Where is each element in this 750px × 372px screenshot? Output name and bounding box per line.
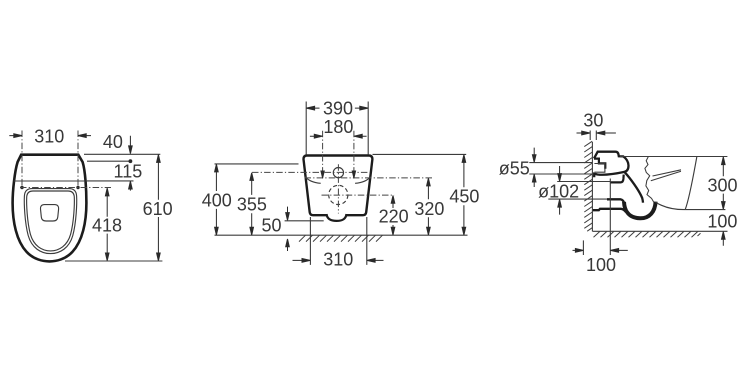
seat back line [14, 180, 86, 182]
dim 355 line with arrows [250, 173, 254, 235]
ground line [215, 234, 468, 236]
profile: outlet pipe top [607, 199, 624, 203]
bowl outlet funnel wall [625, 172, 643, 202]
dim 320 line with arrows [427, 178, 431, 235]
bowl top line / 300 extension [620, 156, 727, 158]
svg-text:418: 418 [92, 216, 122, 236]
ground hatching middle [299, 235, 382, 241]
svg-text:355: 355 [237, 195, 267, 215]
dim 220 line with arrows [391, 196, 395, 236]
extension line top right (450) [373, 153, 467, 155]
dim 310 bottom arrows [293, 259, 311, 263]
svg-text:30: 30 [583, 111, 603, 131]
dim 450 line with arrows [462, 155, 466, 235]
floor hatching [594, 231, 701, 237]
flush outlet shape (rounded square) [40, 205, 58, 221]
dim 310 left arrow [9, 134, 22, 138]
left fixing hole centerline with down arrow [322, 131, 324, 172]
left fixing recess arc [305, 177, 321, 184]
dim 40 down arrow [129, 136, 133, 154]
outlet level centerline 220 [322, 194, 395, 196]
extension line 50 level [285, 220, 324, 222]
svg-text:220: 220 [379, 207, 409, 227]
svg-text:450: 450 [449, 187, 479, 207]
rim water lines [651, 170, 681, 181]
svg-text:400: 400 [202, 191, 232, 211]
right fixing hole centerline with down arrow [353, 131, 355, 172]
svg-text:40: 40 [103, 132, 123, 152]
bowl front edge [685, 157, 697, 210]
water inlet circle (top) [333, 168, 343, 178]
svg-text:100: 100 [586, 255, 616, 275]
dim 390 arrows [306, 106, 319, 110]
svg-text:ø102: ø102 [538, 182, 579, 202]
svg-text:180: 180 [323, 117, 353, 137]
dim ø55 arrows [532, 148, 536, 163]
vertical centerline dash-dot [337, 164, 339, 213]
svg-text:ø55: ø55 [499, 159, 530, 179]
dim 50 arrows [286, 207, 290, 221]
dim ø102 extension lines [548, 182, 610, 200]
dim ø102 arrows [558, 166, 562, 181]
break line (freehand) [645, 157, 654, 203]
dim 300 / 100 right line with arrows [722, 157, 726, 209]
bowl underside [656, 202, 686, 209]
wall hatching [584, 141, 592, 231]
outlet bump bottom [327, 214, 347, 221]
centerline left hinge (dash-dot vertical) [21, 131, 23, 188]
svg-text:50: 50 [261, 216, 281, 236]
hinge dot left [20, 186, 23, 189]
right fixing recess arc [355, 177, 371, 184]
profile: outlet pipe bottom [593, 209, 626, 212]
floor line [592, 230, 727, 232]
seat opening outer line [24, 189, 76, 254]
extension line seat back [87, 180, 134, 182]
dim 180 arrows [310, 134, 323, 138]
svg-text:100: 100 [707, 211, 737, 231]
dim 310 right arrow [78, 134, 91, 138]
dim 100 right up arrow [722, 232, 726, 246]
svg-text:390: 390 [323, 98, 353, 118]
svg-text:310: 310 [34, 127, 64, 147]
dim 610 line with arrows [157, 155, 161, 261]
inlet level centerline 355 [252, 171, 370, 173]
dim 100 bottom extension lines [582, 240, 584, 255]
dim 100 bottom arrows [573, 249, 584, 253]
svg-text:610: 610 [143, 199, 173, 219]
svg-text:115: 115 [114, 161, 143, 181]
trap U bend (thick) [624, 202, 656, 219]
svg-text:300: 300 [707, 175, 737, 195]
dim 30 arrows [577, 131, 590, 135]
profile: tank mount outline [594, 152, 629, 178]
hinge dot right [76, 186, 79, 189]
bowl underside extension line [685, 209, 725, 211]
dim ø55 extension lines [529, 163, 592, 174]
dim 390 extension lines [306, 102, 368, 155]
wall face line [591, 142, 593, 231]
outlet circle (dashed) [329, 185, 348, 204]
dim 30 extension lines [590, 131, 596, 141]
fixing holes level centerline 320 [305, 177, 433, 179]
hinge axis dash-dot horizontal [20, 187, 111, 189]
centerline right hinge (dash-dot vertical) [77, 131, 79, 188]
inlet socket bore (thin) [594, 164, 605, 173]
dim 418 line with arrows [105, 188, 109, 261]
seat opening inner line [27, 191, 75, 251]
svg-text:320: 320 [414, 199, 444, 219]
extension line pan bottom [65, 260, 162, 262]
extension line 400 level [215, 163, 299, 165]
flush channel lower wall [611, 175, 624, 183]
dim 400 line with arrows [215, 164, 219, 235]
extension line 40 below top [87, 160, 130, 162]
body outline (rear view) [304, 156, 373, 216]
svg-text:310: 310 [323, 250, 353, 270]
dim 310 extension lines bottom [310, 217, 366, 265]
dot endpoint 40/115 [129, 159, 133, 163]
dim 115 up arrow [129, 181, 133, 190]
extension line pan top [84, 153, 160, 155]
profile: inlet socket steps [594, 159, 605, 169]
pan outer contour (top view) [13, 155, 87, 262]
